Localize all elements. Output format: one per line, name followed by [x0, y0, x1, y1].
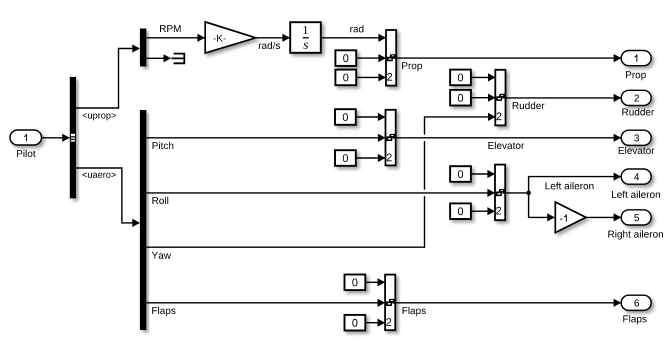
wire const to switch2 in1	[471, 76, 495, 78]
label Flaps (demux2)	[152, 307, 175, 316]
wire switch4 to junction	[505, 192, 528, 194]
outport 4 Left aileron	[621, 169, 651, 184]
wire uprop: bus selector to demux1	[76, 49, 139, 109]
wire Roll: demux2 to switch4 in2	[146, 192, 494, 194]
wire const to switch5 in1	[365, 281, 384, 283]
wire const to switch3 in3	[356, 157, 385, 159]
bus selector bar	[70, 77, 76, 198]
wire integrator to switch1	[321, 37, 385, 39]
demux2 bar	[140, 110, 146, 330]
label <uprop>	[83, 113, 116, 120]
wire const to switch4 in3	[471, 210, 495, 212]
outport 2 Rudder	[621, 90, 651, 105]
label Flaps (outport)	[623, 315, 646, 324]
switch block SW3 (Elevator)	[386, 110, 396, 166]
outport 3 Elevator	[621, 130, 651, 145]
terminator symbol	[171, 54, 184, 64]
constant 0 (prop b)	[335, 70, 356, 86]
wire const to switch1 in2	[356, 57, 385, 59]
constant 0 (prop a)	[335, 50, 356, 66]
switch block SW1 (Prop)	[386, 30, 396, 86]
bus selector input icon	[71, 134, 75, 142]
outport 6 Flaps	[621, 295, 651, 310]
label Pilot	[17, 150, 36, 157]
constant 0 (flaps a)	[345, 275, 366, 291]
wire Pitch: demux2 to switch3 in2	[146, 137, 384, 139]
wire Yaw: demux2 to switch2 in3	[146, 117, 495, 247]
constant 0 (ail b)	[450, 203, 471, 219]
wire const to switch1 in3	[356, 76, 385, 78]
constant 0 (ail a)	[450, 166, 471, 182]
gain -1	[555, 202, 586, 233]
wire demux1 to terminator	[146, 57, 170, 59]
switch block SW5 (Flaps)	[385, 275, 395, 331]
wire Flaps: demux2 to switch5 in2	[146, 302, 384, 304]
constant 0 (elev a)	[335, 109, 356, 125]
label Prop (wire)	[402, 62, 422, 71]
label <uaero>	[83, 172, 116, 178]
label Flaps (wire)	[403, 307, 426, 316]
wire const to switch4 in1	[471, 173, 495, 175]
label Prop (outport)	[626, 71, 646, 80]
label Rudder (wire)	[513, 102, 545, 109]
crossing gap on yaw line (pitch)	[423, 135, 426, 141]
label Left aileron (outport)	[612, 191, 660, 198]
gain -K-	[205, 22, 256, 53]
wire gain -1 to outport Right aileron	[586, 216, 621, 218]
demux1 bar	[140, 29, 146, 67]
wire switch1 to outport Prop	[396, 57, 620, 59]
label RPM	[160, 25, 181, 32]
constant 0 (rudder a)	[450, 70, 471, 86]
wire const to switch2 in2	[471, 97, 495, 99]
label Right aileron (outport)	[608, 230, 663, 239]
label Left aileron (wire)	[546, 182, 594, 189]
wire junction to gain -1	[529, 193, 554, 218]
wire switch3 to outport Elevator	[396, 137, 621, 139]
label Elevator (outport)	[619, 147, 655, 154]
outport 1 Prop	[621, 51, 651, 66]
constant 0 (rudder b)	[450, 90, 471, 106]
integrator 1/s	[290, 22, 321, 53]
wire uaero: bus selector to demux2	[76, 168, 139, 223]
label rad	[350, 25, 363, 32]
wire gain to integrator	[256, 37, 290, 39]
junction dot	[526, 191, 531, 196]
wire Pilot to bus selector	[42, 137, 70, 139]
label Rudder (outport)	[622, 108, 654, 115]
constant 0 (elev b)	[335, 150, 356, 166]
wire switch5 to outport Flaps	[395, 302, 620, 304]
switch block SW4 (Ailerons)	[495, 165, 505, 221]
wire switch2 to outport Rudder	[506, 97, 621, 99]
wire junction to outport Left aileron	[529, 177, 621, 193]
outport 5 Right aileron	[621, 210, 651, 225]
label rad/s	[259, 42, 280, 49]
constant 0 (flaps b)	[345, 315, 366, 331]
label Roll	[152, 197, 168, 204]
label Elevator (wire)	[488, 142, 524, 149]
switch block SW2 (Rudder)	[495, 70, 505, 126]
crossing gap on yaw line (roll)	[423, 190, 426, 196]
inport 1 Pilot	[10, 130, 42, 145]
label Yaw	[152, 252, 171, 259]
wire RPM: demux1 to gain	[146, 37, 204, 39]
wire const to switch5 in3	[365, 322, 384, 324]
label Pitch	[153, 142, 174, 149]
wire const to switch3 in1	[356, 116, 385, 118]
